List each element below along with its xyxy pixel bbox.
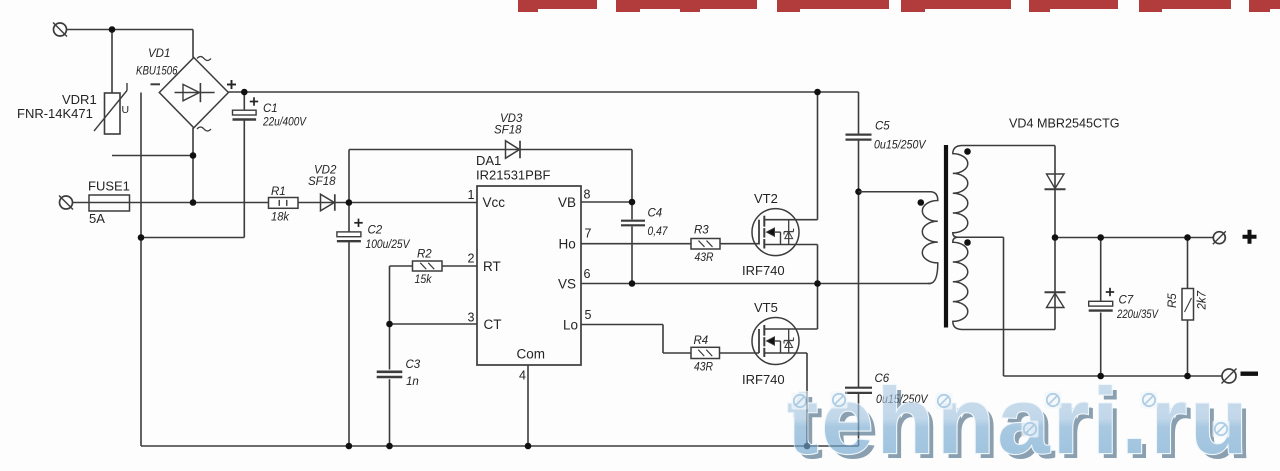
svg-text:SF18: SF18	[494, 125, 522, 137]
svg-text:8: 8	[584, 188, 591, 202]
svg-text:Lo: Lo	[563, 318, 578, 333]
svg-text:R5: R5	[1167, 293, 1179, 308]
svg-text:C5: C5	[875, 121, 890, 133]
svg-text:R4: R4	[694, 335, 709, 347]
svg-text:VD4 MBR2545CTG: VD4 MBR2545CTG	[1009, 117, 1120, 131]
svg-text:0,47: 0,47	[648, 226, 669, 238]
svg-text:VDR1: VDR1	[62, 92, 97, 107]
svg-text:7: 7	[585, 227, 592, 241]
svg-text:VD3: VD3	[500, 113, 523, 125]
svg-text:VD1: VD1	[148, 48, 170, 60]
svg-text:43R: 43R	[695, 252, 714, 264]
svg-text:RT: RT	[483, 259, 501, 274]
svg-text:C4: C4	[648, 208, 663, 220]
svg-text:R2: R2	[417, 249, 432, 261]
svg-text:C1: C1	[263, 103, 278, 115]
svg-text:2: 2	[468, 252, 475, 266]
svg-text:Vcc: Vcc	[483, 195, 506, 210]
svg-text:0u15/250V: 0u15/250V	[874, 140, 927, 152]
svg-text:15k: 15k	[415, 274, 433, 286]
svg-text:R3: R3	[694, 225, 709, 237]
svg-text:6: 6	[584, 267, 591, 281]
svg-text:22u/400V: 22u/400V	[262, 117, 307, 129]
svg-text:IRF740: IRF740	[742, 263, 785, 278]
svg-text:C2: C2	[368, 225, 383, 237]
svg-text:tehnari.ru: tehnari.ru	[787, 368, 1251, 471]
svg-text:4: 4	[519, 369, 526, 383]
svg-text:5: 5	[585, 308, 592, 322]
svg-text:2k7: 2k7	[1197, 290, 1209, 310]
svg-text:43R: 43R	[694, 362, 713, 374]
svg-text:KBU1506: KBU1506	[136, 66, 178, 78]
svg-text:18k: 18k	[271, 212, 290, 224]
svg-text:5A: 5A	[89, 211, 105, 226]
svg-text:SF18: SF18	[308, 176, 336, 188]
svg-text:VT2: VT2	[754, 191, 778, 206]
svg-text:100u/25V: 100u/25V	[366, 239, 411, 251]
svg-text:U: U	[122, 104, 130, 116]
svg-text:C7: C7	[1119, 295, 1134, 307]
svg-text:VD2: VD2	[314, 165, 337, 177]
svg-text:C3: C3	[406, 359, 421, 371]
svg-text:VT5: VT5	[754, 300, 778, 315]
svg-text:Ho: Ho	[559, 237, 576, 252]
svg-text:R1: R1	[271, 186, 286, 198]
svg-text:1: 1	[468, 188, 475, 202]
svg-text:1n: 1n	[406, 376, 419, 388]
svg-text:3: 3	[468, 311, 475, 325]
svg-text:IR21531PBF: IR21531PBF	[476, 168, 550, 183]
svg-text:IRF740: IRF740	[742, 372, 785, 387]
svg-text:Com: Com	[517, 347, 546, 362]
svg-text:DA1: DA1	[476, 153, 501, 168]
svg-text:VS: VS	[558, 277, 576, 292]
svg-text:VB: VB	[558, 195, 576, 210]
svg-text:FNR-14K471: FNR-14K471	[17, 106, 93, 121]
svg-text:CT: CT	[484, 317, 502, 332]
svg-text:220u/35V: 220u/35V	[1116, 309, 1159, 321]
svg-text:FUSE1: FUSE1	[88, 179, 130, 194]
